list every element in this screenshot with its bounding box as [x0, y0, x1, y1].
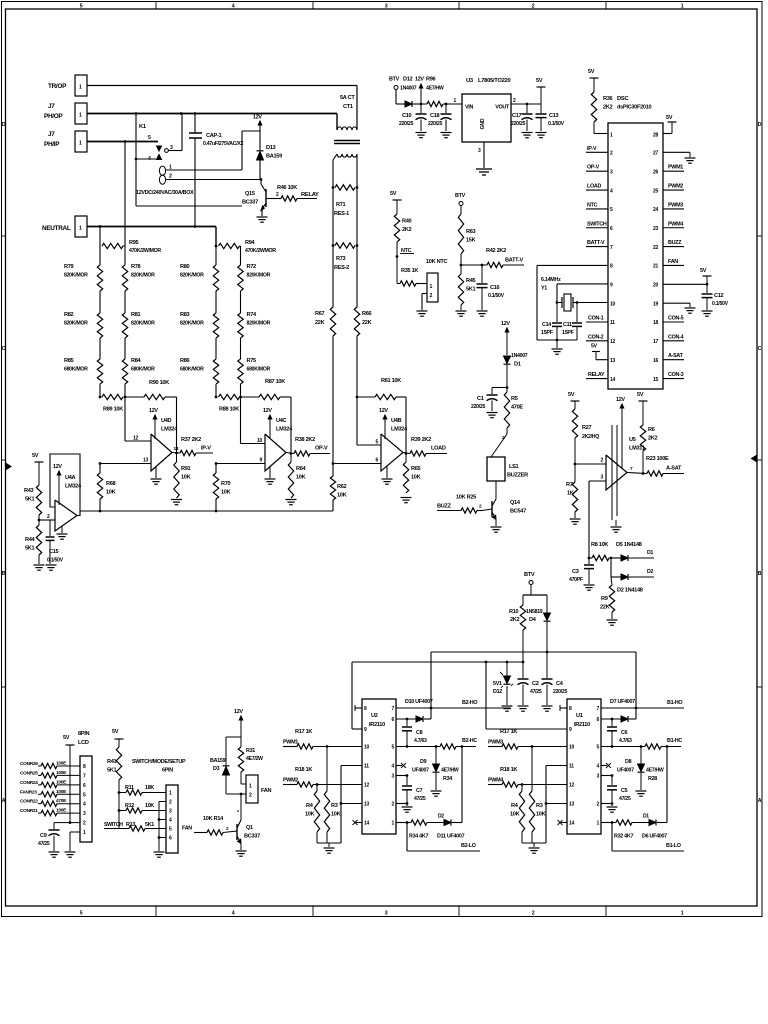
svg-text:C17: C17: [512, 113, 522, 119]
svg-text:BATT-V: BATT-V: [587, 240, 605, 246]
resistor R75 680K/MOR: [240, 358, 242, 360]
wire R5 to buzzer: [506, 428, 508, 434]
svg-text:12: 12: [133, 436, 138, 442]
svg-text:10K: 10K: [536, 812, 546, 818]
svg-text:D5 1N4148: D5 1N4148: [616, 542, 642, 548]
ground pin19: [685, 307, 696, 309]
ground Q14: [491, 526, 502, 528]
svg-text:CAP-1: CAP-1: [206, 133, 221, 139]
svg-text:18K: 18K: [145, 785, 154, 791]
IC U1 IR2110: [567, 699, 601, 834]
svg-text:1K: 1K: [567, 491, 574, 497]
svg-text:19: 19: [653, 301, 658, 307]
svg-text:D12: D12: [403, 77, 413, 83]
svg-text:U2: U2: [371, 713, 378, 719]
svg-text:LM324: LM324: [391, 427, 408, 433]
svg-text:47/25: 47/25: [619, 796, 631, 802]
svg-text:U4A: U4A: [65, 475, 76, 481]
svg-text:C: C: [758, 346, 762, 352]
svg-text:14: 14: [364, 821, 369, 827]
svg-text:14: 14: [569, 821, 574, 827]
wire CT1 secondary legs: [333, 154, 337, 160]
svg-text:5V: 5V: [32, 453, 39, 459]
resistor R45 5K1: [460, 265, 462, 274]
svg-text:2K2: 2K2: [402, 227, 412, 233]
svg-text:RES-1: RES-1: [334, 211, 349, 217]
wire fan pins: [241, 783, 246, 785]
fold mark left: [6, 463, 12, 470]
svg-text:13: 13: [610, 358, 615, 364]
buzzer LS1: [487, 457, 505, 481]
svg-text:5V: 5V: [591, 344, 598, 350]
svg-text:15PF: 15PF: [562, 330, 575, 336]
svg-text:2K2: 2K2: [603, 105, 613, 111]
svg-text:12V: 12V: [501, 321, 510, 327]
svg-text:10: 10: [257, 438, 262, 444]
comparator U5 LM311: [606, 455, 627, 490]
svg-text:R7: R7: [566, 482, 573, 488]
ground R9: [607, 619, 618, 621]
svg-text:220/25: 220/25: [553, 689, 567, 695]
resistor R86 680K/MOR: [215, 358, 217, 360]
svg-text:10: 10: [364, 745, 369, 751]
connector FAN: [246, 775, 258, 803]
svg-text:R79: R79: [64, 264, 74, 270]
svg-text:10K: 10K: [145, 803, 154, 809]
svg-text:1: 1: [430, 284, 433, 290]
wire bootstrap return U1: [666, 747, 668, 823]
svg-text:U4C: U4C: [276, 418, 287, 424]
svg-text:PWM2: PWM2: [283, 778, 298, 784]
svg-text:10K R14: 10K R14: [203, 816, 224, 822]
node NTC: [396, 255, 399, 258]
capacitor C13 0.1/50V: [540, 104, 542, 113]
svg-text:A-SAT: A-SAT: [666, 466, 682, 472]
svg-text:820K/MOR: 820K/MOR: [180, 273, 204, 279]
DSC pin28 5V: [663, 133, 672, 135]
svg-text:C5: C5: [621, 788, 628, 794]
svg-text:820K/MOR: 820K/MOR: [180, 321, 204, 327]
svg-text:20: 20: [653, 283, 658, 289]
wire B1-HO: [601, 707, 684, 709]
svg-text:R44: R44: [25, 537, 36, 543]
svg-text:U4D: U4D: [161, 418, 172, 424]
resistor R38 2K2: [290, 452, 293, 455]
svg-text:R37 2K2: R37 2K2: [181, 437, 201, 443]
svg-text:R34: R34: [443, 776, 452, 782]
svg-text:R28: R28: [648, 776, 657, 782]
wire diode ladder: [610, 558, 612, 577]
svg-text:R27: R27: [582, 425, 592, 431]
ground C4: [542, 705, 553, 707]
svg-text:FAN: FAN: [668, 259, 678, 265]
svg-text:820K/MOR: 820K/MOR: [64, 321, 88, 327]
svg-text:5V: 5V: [390, 191, 397, 197]
svg-text:4E7/2W: 4E7/2W: [246, 756, 263, 762]
svg-text:D: D: [758, 122, 762, 128]
svg-text:PWM1: PWM1: [283, 740, 298, 746]
node Q15 collector: [260, 178, 263, 181]
svg-text:R95: R95: [129, 240, 139, 246]
svg-text:4E7/HW: 4E7/HW: [441, 768, 459, 774]
svg-text:5V: 5V: [700, 268, 707, 274]
svg-text:C10: C10: [402, 113, 412, 119]
svg-text:12V: 12V: [616, 397, 625, 403]
resistor R94 470K/2W/MOR: [219, 243, 240, 248]
resistor R88 10K: [219, 394, 240, 399]
svg-text:10K: 10K: [305, 812, 315, 818]
wire U2 pin9 to VCC rail: [352, 728, 362, 730]
resistor R62 10K: [332, 464, 334, 477]
svg-text:25: 25: [653, 188, 658, 194]
DSC pin20 5V and C12: [663, 283, 707, 285]
svg-text:4E7/HW: 4E7/HW: [646, 768, 664, 774]
svg-text:R41: R41: [107, 759, 117, 765]
svg-text:Y1: Y1: [541, 286, 547, 292]
svg-text:2K2: 2K2: [510, 617, 520, 623]
resistor R7 1K: [574, 464, 576, 482]
svg-text:470E: 470E: [511, 405, 523, 411]
ground U1 COM: [607, 806, 618, 808]
svg-text:D7 UF4007: D7 UF4007: [610, 699, 635, 705]
svg-text:22K: 22K: [315, 320, 325, 326]
svg-text:BTV: BTV: [524, 572, 535, 578]
wire U1 pin4 NC: [601, 765, 607, 767]
ground R64: [286, 499, 297, 501]
resistor R40 2K2: [394, 214, 399, 242]
wire PH/IP: [87, 141, 158, 143]
frame row ticks sides: [2, 235, 6, 237]
svg-text:5K1: 5K1: [145, 822, 154, 828]
svg-text:CONR21: CONR21: [20, 808, 38, 814]
op-amp U4B LM324: [381, 434, 403, 471]
ground U2 logic: [317, 842, 341, 844]
svg-text:R66: R66: [362, 311, 372, 317]
frame column ticks bottom: [155, 906, 157, 917]
svg-text:5V: 5V: [63, 735, 70, 741]
wire U2 pin4 NC: [396, 765, 402, 767]
resistor R91 10K: [176, 453, 178, 462]
svg-text:R43: R43: [24, 488, 34, 494]
svg-text:1: 1: [681, 911, 684, 917]
svg-text:C: C: [2, 346, 6, 352]
wire U1 pin14 NC: [561, 822, 567, 824]
resistor R3 10K U1: [531, 747, 533, 792]
svg-text:10K: 10K: [221, 490, 231, 496]
svg-text:12V: 12V: [379, 408, 388, 414]
svg-text:6.14MHz: 6.14MHz: [541, 277, 561, 283]
svg-text:12: 12: [610, 339, 615, 345]
ground C2: [518, 705, 529, 707]
svg-text:22: 22: [653, 245, 658, 251]
wire K1 left leg: [135, 114, 137, 207]
svg-text:4.7/63: 4.7/63: [619, 738, 632, 744]
svg-text:D1: D1: [643, 814, 649, 820]
svg-text:3: 3: [385, 911, 388, 917]
svg-text:22K: 22K: [362, 320, 372, 326]
resistor R9 22K: [611, 577, 612, 585]
svg-text:BUZZER: BUZZER: [507, 473, 528, 479]
op-amp U4D LM324: [151, 434, 172, 471]
svg-text:R18 1K: R18 1K: [295, 767, 312, 773]
svg-text:1: 1: [79, 85, 82, 91]
ground Q15: [257, 216, 268, 218]
connector LCD 8PIN: [80, 756, 92, 842]
diode D13 BA159: [257, 150, 264, 152]
resistor R43 5K1: [36, 485, 41, 515]
wire 6PIN ground rail: [159, 801, 166, 803]
svg-text:14: 14: [174, 446, 179, 452]
resistor R79 820K/MOR: [99, 246, 101, 265]
svg-text:R91: R91: [181, 466, 191, 472]
wire DSC pin8 osc loop: [537, 264, 608, 266]
svg-text:R23 100E: R23 100E: [646, 456, 669, 462]
relay K1 coil: [159, 166, 165, 175]
connector 6PIN: [166, 785, 178, 853]
wire TR/OP to CT1: [87, 85, 357, 87]
svg-text:CON-5: CON-5: [668, 316, 684, 322]
svg-text:C14: C14: [542, 322, 551, 328]
resistor R71 RES-1: [335, 185, 355, 190]
svg-text:2: 2: [532, 911, 535, 917]
svg-text:0.1/50V: 0.1/50V: [47, 558, 64, 564]
ground U4C: [269, 467, 271, 479]
resistor R10 2K2: [522, 595, 524, 605]
svg-text:220/25: 220/25: [471, 404, 485, 410]
svg-text:R87 10K: R87 10K: [265, 379, 285, 385]
svg-text:13: 13: [364, 802, 369, 808]
svg-text:12: 12: [569, 783, 574, 789]
svg-text:R88 10K: R88 10K: [219, 407, 239, 413]
svg-text:820K/MOR: 820K/MOR: [131, 321, 155, 327]
wire U1 pin3 VCC: [601, 775, 612, 777]
zener 5V1 D12: [506, 662, 508, 676]
svg-text:C2: C2: [532, 681, 539, 687]
svg-text:BTV: BTV: [455, 193, 466, 199]
node divider taps row: [99, 396, 102, 399]
svg-text:IP-V: IP-V: [587, 146, 597, 152]
svg-text:UF4007: UF4007: [412, 768, 429, 774]
svg-text:U1: U1: [576, 713, 583, 719]
wire R67 rail to U4B pin6 node: [332, 336, 334, 464]
svg-text:D13: D13: [266, 145, 276, 151]
capacitor C10 220/25: [420, 104, 422, 113]
node U4A ref divider: [38, 519, 41, 522]
svg-text:220/25: 220/25: [511, 121, 525, 127]
svg-text:28: 28: [653, 133, 658, 139]
wire U1 pin2 COM: [601, 803, 612, 805]
svg-text:16: 16: [653, 358, 658, 364]
IC DSC body: [608, 123, 663, 389]
ground C16: [477, 310, 488, 312]
resistor R36 2K2: [591, 92, 596, 122]
node U5 pin2: [574, 463, 577, 466]
svg-text:D: D: [2, 122, 6, 128]
wire U5 output: [627, 473, 647, 474]
transformer CT1 secondary coil: [337, 154, 357, 157]
svg-text:470K/2W/MOR: 470K/2W/MOR: [129, 248, 161, 254]
svg-text:11: 11: [364, 764, 369, 770]
svg-text:R8 10K: R8 10K: [591, 542, 608, 548]
svg-text:1N5819: 1N5819: [526, 609, 543, 615]
svg-text:680K/MOR: 680K/MOR: [247, 367, 271, 373]
capacitor C11 15PF: [576, 303, 578, 323]
svg-text:VIN: VIN: [465, 105, 473, 111]
svg-text:LOAD: LOAD: [587, 184, 601, 190]
resistor R65 10K: [405, 454, 407, 463]
svg-text:1: 1: [79, 141, 82, 147]
svg-text:C13: C13: [549, 113, 559, 119]
svg-text:NEUTRAL: NEUTRAL: [42, 225, 71, 232]
wire U4C pin10 input: [240, 397, 242, 444]
svg-text:5A CT: 5A CT: [340, 95, 355, 101]
svg-text:CONR25: CONR25: [20, 770, 38, 776]
svg-text:0.47uF/275VAC/X2: 0.47uF/275VAC/X2: [203, 141, 243, 147]
svg-text:12VDC/240VAC/30A/BOX: 12VDC/240VAC/30A/BOX: [136, 190, 194, 196]
svg-text:SWITCH: SWITCH: [587, 221, 607, 227]
svg-text:R46 10K: R46 10K: [277, 185, 297, 191]
svg-text:D6 UF4007: D6 UF4007: [642, 834, 667, 840]
svg-text:12V: 12V: [234, 709, 243, 715]
svg-text:LM324: LM324: [276, 427, 293, 433]
resistor R81 820K/MOR: [124, 312, 126, 314]
svg-text:R6: R6: [648, 427, 655, 433]
svg-text:5: 5: [80, 911, 83, 917]
svg-text:CONR22: CONR22: [20, 799, 38, 805]
svg-text:D9: D9: [420, 759, 427, 765]
connector J7 PH/IP: [75, 131, 87, 152]
svg-text:BATT-V: BATT-V: [505, 258, 524, 264]
relay K1 contact common: [165, 149, 169, 153]
svg-text:12V: 12V: [53, 464, 62, 470]
svg-text:220/25: 220/25: [428, 121, 442, 127]
ground C17: [522, 132, 533, 134]
svg-text:11: 11: [610, 320, 615, 326]
svg-text:5K1: 5K1: [466, 287, 476, 293]
svg-text:10K: 10K: [296, 475, 306, 481]
resistor R85 680K/MOR: [99, 358, 101, 360]
svg-text:2: 2: [169, 174, 172, 180]
capacitor C15 0.1/50V: [49, 520, 51, 536]
svg-text:12V: 12V: [415, 77, 424, 83]
svg-text:D11 UF4007: D11 UF4007: [437, 834, 465, 840]
op-amp U4C LM324: [265, 434, 286, 471]
svg-text:5: 5: [80, 4, 83, 10]
svg-text:FANR23: FANR23: [20, 789, 37, 795]
svg-text:R89 10K: R89 10K: [103, 407, 123, 413]
resistor R27 2K2/HQ: [572, 409, 577, 438]
svg-text:R81: R81: [131, 312, 141, 318]
svg-text:5K1: 5K1: [25, 546, 35, 552]
svg-text:R5: R5: [511, 396, 518, 402]
ground C3: [584, 584, 595, 586]
svg-text:R94: R94: [245, 240, 256, 246]
svg-text:R72: R72: [247, 264, 257, 270]
svg-text:R17 1K: R17 1K: [500, 729, 517, 735]
svg-text:820K/MOR: 820K/MOR: [131, 273, 155, 279]
svg-text:LM324: LM324: [161, 427, 178, 433]
ground C10: [416, 132, 427, 134]
wire U5 pin3: [589, 480, 606, 482]
svg-text:D1: D1: [514, 362, 521, 368]
svg-text:R42 2K2: R42 2K2: [486, 248, 506, 254]
svg-text:R64: R64: [296, 466, 307, 472]
svg-text:10K: 10K: [411, 475, 421, 481]
svg-text:15K: 15K: [466, 238, 476, 244]
svg-text:680K/MOR: 680K/MOR: [131, 367, 155, 373]
svg-text:12V: 12V: [149, 408, 158, 414]
svg-text:CON-1: CON-1: [588, 316, 604, 322]
svg-text:13: 13: [569, 802, 574, 808]
svg-text:21: 21: [653, 264, 658, 270]
svg-text:C15: C15: [49, 549, 59, 555]
wire U4D pin12 input: [124, 397, 126, 441]
node buzzer supply: [506, 386, 509, 389]
svg-text:R96: R96: [426, 77, 436, 83]
ground R65: [401, 497, 412, 499]
svg-text:K1: K1: [139, 124, 147, 130]
ground C12: [702, 310, 713, 312]
node PH/IP junction: [124, 140, 127, 143]
svg-text:C7: C7: [416, 788, 423, 794]
ground LCD pin1: [65, 851, 76, 853]
wire B1-HC: [601, 746, 645, 748]
capacitor C7 47/25: [406, 776, 408, 786]
wire U2 pin11 ground leg: [341, 765, 362, 767]
svg-text:FAN: FAN: [261, 788, 272, 794]
svg-text:B1-HO: B1-HO: [667, 700, 682, 706]
svg-text:8PIN: 8PIN: [78, 731, 89, 737]
ground R44: [34, 564, 45, 566]
svg-text:U3: U3: [466, 78, 474, 84]
svg-text:R18 1K: R18 1K: [500, 767, 517, 773]
node R41 to R11: [118, 791, 121, 794]
svg-text:R78: R78: [131, 264, 141, 270]
svg-text:PWM3: PWM3: [488, 740, 503, 746]
ground C18: [441, 132, 452, 134]
wire U1 pin13 ground leg: [546, 803, 567, 805]
svg-text:22K: 22K: [600, 605, 610, 611]
svg-text:OP-V: OP-V: [315, 446, 328, 452]
svg-text:R74: R74: [247, 312, 258, 318]
regulator U3 L7805/TO220: [462, 94, 511, 142]
transformer CT1 core: [334, 140, 360, 142]
svg-text:D3: D3: [213, 766, 220, 772]
connector J1 TR/OP: [75, 75, 87, 96]
capacitor C4 220/25: [546, 652, 548, 678]
wire U1 pin11 ground leg: [546, 765, 567, 767]
svg-text:680K/MOR: 680K/MOR: [180, 367, 204, 373]
svg-text:0.1/50V: 0.1/50V: [712, 301, 729, 307]
ground 6PIN: [154, 851, 165, 853]
svg-text:5K1: 5K1: [25, 497, 35, 503]
connector NEUTRAL: [75, 216, 87, 237]
wire Q1 collector: [240, 794, 242, 820]
svg-text:BC337: BC337: [244, 834, 260, 840]
svg-text:5V: 5V: [666, 115, 673, 121]
ground R28: [636, 790, 647, 792]
svg-text:GND: GND: [480, 118, 486, 129]
svg-text:CON-2: CON-2: [588, 334, 604, 340]
svg-text:5V: 5V: [568, 392, 575, 398]
svg-text:U4B: U4B: [391, 418, 402, 424]
ground C1: [487, 412, 498, 414]
ground U5: [611, 526, 622, 528]
fold mark right: [752, 455, 758, 462]
svg-text:5V: 5V: [536, 78, 543, 84]
wire bootstrap return U2: [461, 747, 463, 823]
svg-text:1: 1: [79, 113, 82, 119]
